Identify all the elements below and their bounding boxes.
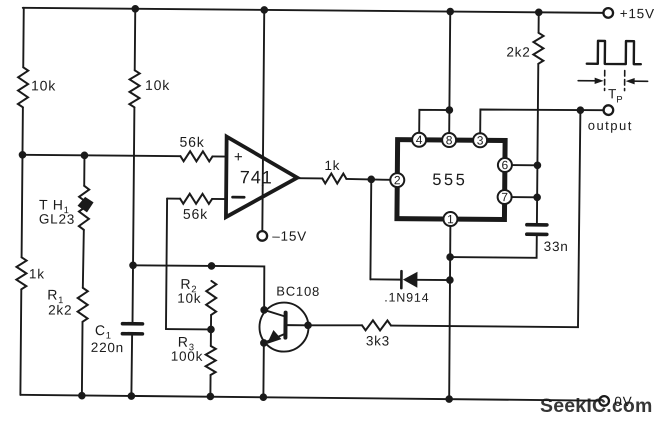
resistor 10k (left) [18,67,28,107]
node top rail dot at pin 8 [446,8,454,16]
wire 741 output row [297,177,322,179]
node R2 top dot [208,262,216,270]
wire feedback row to R2/R3 junction [166,328,211,330]
wire pin 8 riser to +15 rail [449,12,450,133]
wire R3 to bottom rail [209,375,211,396]
resistor 2k2 [533,33,543,64]
node TH1 column tap dot [81,152,89,160]
svg-text:4: 4 [416,133,423,147]
pin 8 circle [442,133,456,147]
wire pin2 node down to diode row [369,179,372,279]
wire collector row from R2 node [211,266,264,310]
svg-text:1k: 1k [29,266,45,281]
node dot pin6/2k2 column [534,161,542,169]
wire diode row right segment [417,279,449,281]
wire +15V top supply rail [23,8,604,13]
wire 33n bottom to pin1 column [450,234,537,258]
node diode row dot at pin1 column [446,276,454,284]
waveform Tp left dashed tick [604,70,606,90]
resistor 56k (non-inverting input) [180,151,212,161]
wire TH1 to R1 [83,230,84,288]
wire 56k to op-amp - input [212,198,226,200]
resistor 1k (left) [16,257,26,289]
svg-text:2: 2 [394,173,401,187]
svg-text:3k3: 3k3 [366,333,390,348]
wire 0V bottom rail [20,395,599,401]
node bottom rail dot at C1 [128,392,136,400]
wire TH1 column upper [83,155,85,185]
svg-text:+15V: +15V [620,6,655,21]
svg-text:56k: 56k [183,206,208,222]
wire R3 junction to zigzag [210,329,212,345]
wire 10k-2 column (top rail to resistor) [134,9,137,70]
svg-text:741: 741 [240,167,273,187]
wire 2k2 column down to 33n [537,64,538,224]
transistor base bar [283,313,287,338]
transistor emitter lead [264,333,286,343]
wire C1 to bottom rail [130,334,133,396]
wire C1 column upper [132,265,135,323]
wire 741 +V supply from rail [263,10,264,156]
wire 1k to pin 2 [346,178,390,181]
wire base lead [288,324,308,326]
wire 741 -V line inside triangle [261,185,263,231]
wire pin 3 riser [480,109,603,134]
node bottom rail dot at emitter [260,393,268,401]
pin 4 circle [412,133,426,147]
node top rail dot at 2k2 [535,8,543,16]
svg-text:10k: 10k [145,77,170,93]
waveform left arrow [578,77,604,84]
svg-text:2k2: 2k2 [506,45,530,60]
wire pin 6 stub [512,164,537,166]
node +input row dot at left column [19,151,27,159]
node pin2 junction dot [367,176,375,184]
node bottom rail dot at R1 [78,392,86,400]
svg-text:33n: 33n [544,239,569,254]
waveform right arrow [626,78,648,85]
svg-text:C1: C1 [95,322,112,342]
resistor 3k3 [362,320,391,330]
terminal -15V circle [257,231,267,241]
wire pin 7 stub [512,196,537,198]
node pin4/8 junction dot [446,106,454,114]
svg-text:10k: 10k [31,77,56,93]
capacitor C2 33n plates [527,225,547,235]
svg-text:56k: 56k [180,134,205,150]
node top rail dot at 10k-2 column [131,5,139,13]
wire R2/C1 node row [133,264,211,267]
svg-text:1k: 1k [324,158,340,173]
resistor R1 zigzag [78,288,88,322]
wire output node down column [391,109,580,328]
svg-text:7: 7 [501,190,508,204]
node bottom rail dot at R3 [207,393,215,401]
waveform output pulses [587,41,641,64]
svg-text:10k: 10k [177,291,201,306]
node emitter dot [260,339,268,347]
svg-text:220n: 220n [91,340,124,355]
svg-text:BC108: BC108 [276,284,320,299]
svg-text:+: + [234,149,243,166]
pin 2 circle [390,173,404,187]
pin 7 circle [498,190,512,204]
wire R1 to bottom rail [81,322,84,395]
svg-text:100k: 100k [171,349,204,364]
waveform Tp right dashed tick [624,71,626,91]
svg-text:GL23: GL23 [39,211,75,226]
thermistor TH1 GL23 zigzag [79,186,89,230]
wire left column (1k to bottom rail) [19,289,22,394]
wire R2 to junction [210,315,212,329]
wire 56k to op-amp + input [212,155,226,157]
wire pin 1 column down to bottom rail [449,226,451,399]
wire non-inverting input row [22,155,180,156]
resistor 10k (second) [129,70,139,107]
IC U2 555 body [397,140,505,220]
pin 6 circle [498,158,512,172]
wire emitter to bottom rail [262,343,264,397]
label 741 - input [233,196,244,199]
node bottom rail dot at pin1 column [445,395,453,403]
wire 3k3 to transistor base [308,324,362,327]
pin 3 circle [473,133,487,147]
transistor emitter arrowhead [267,330,282,344]
svg-text:555: 555 [432,171,467,189]
svg-text:output: output [588,118,633,133]
resistor R2 zigzag [206,281,216,315]
thermistor TH1 bead blob [77,197,93,213]
svg-text:TP: TP [608,86,623,105]
svg-text:2k2: 2k2 [48,303,72,318]
wire inverting input row corner [167,198,180,200]
node R2/R3 junction dot [207,326,215,334]
wire 10k-2 column (resistor to C1 node) [133,107,134,265]
node output junction dot [577,106,585,114]
transistor collector lead [264,310,286,317]
wire left column (10k to +input node row) [21,107,23,154]
node C1 top row dot [129,261,137,269]
capacitor C1 plates [122,324,142,334]
svg-text:1: 1 [447,212,454,226]
wire diode row left segment [370,278,400,280]
terminal 0V circle [599,396,609,406]
wire feedback column to R2/R3 junction [166,199,167,329]
node base row dot [304,321,312,329]
wire left column (top rail to 10k R) [22,8,25,67]
pin 1 circle [443,212,457,226]
op-amp U1 741 triangle [226,137,298,218]
node top rail dot at 741 supply [260,6,268,14]
wire pin 4 riser [419,110,449,133]
resistor 1k (op-amp output) [322,173,346,183]
diode D1 1N914 arrow [403,272,418,288]
wire 741 supply through body [262,156,264,185]
wire left column (node row to 1k) [21,155,24,257]
resistor 56k (inverting input) [180,194,212,204]
diode D1 1N914 cathode bar [400,271,403,288]
svg-text:3: 3 [477,133,484,147]
terminal +15V circle [603,8,613,18]
terminal output circle [604,105,614,115]
node collector dot [260,306,268,314]
resistor R3 zigzag [206,346,216,375]
svg-text:8: 8 [446,133,453,147]
wire 2k2 top [538,12,540,32]
svg-text:.1N914: .1N914 [384,290,429,304]
transistor Q1 BC108 circle [259,302,308,351]
svg-text:SeekIC.com: SeekIC.com [540,395,653,417]
node dot 33n return at pin1 column [446,253,454,261]
svg-text:–15V: –15V [272,228,307,243]
node dot pin7/2k2 column [533,193,541,201]
svg-text:6: 6 [502,158,509,172]
